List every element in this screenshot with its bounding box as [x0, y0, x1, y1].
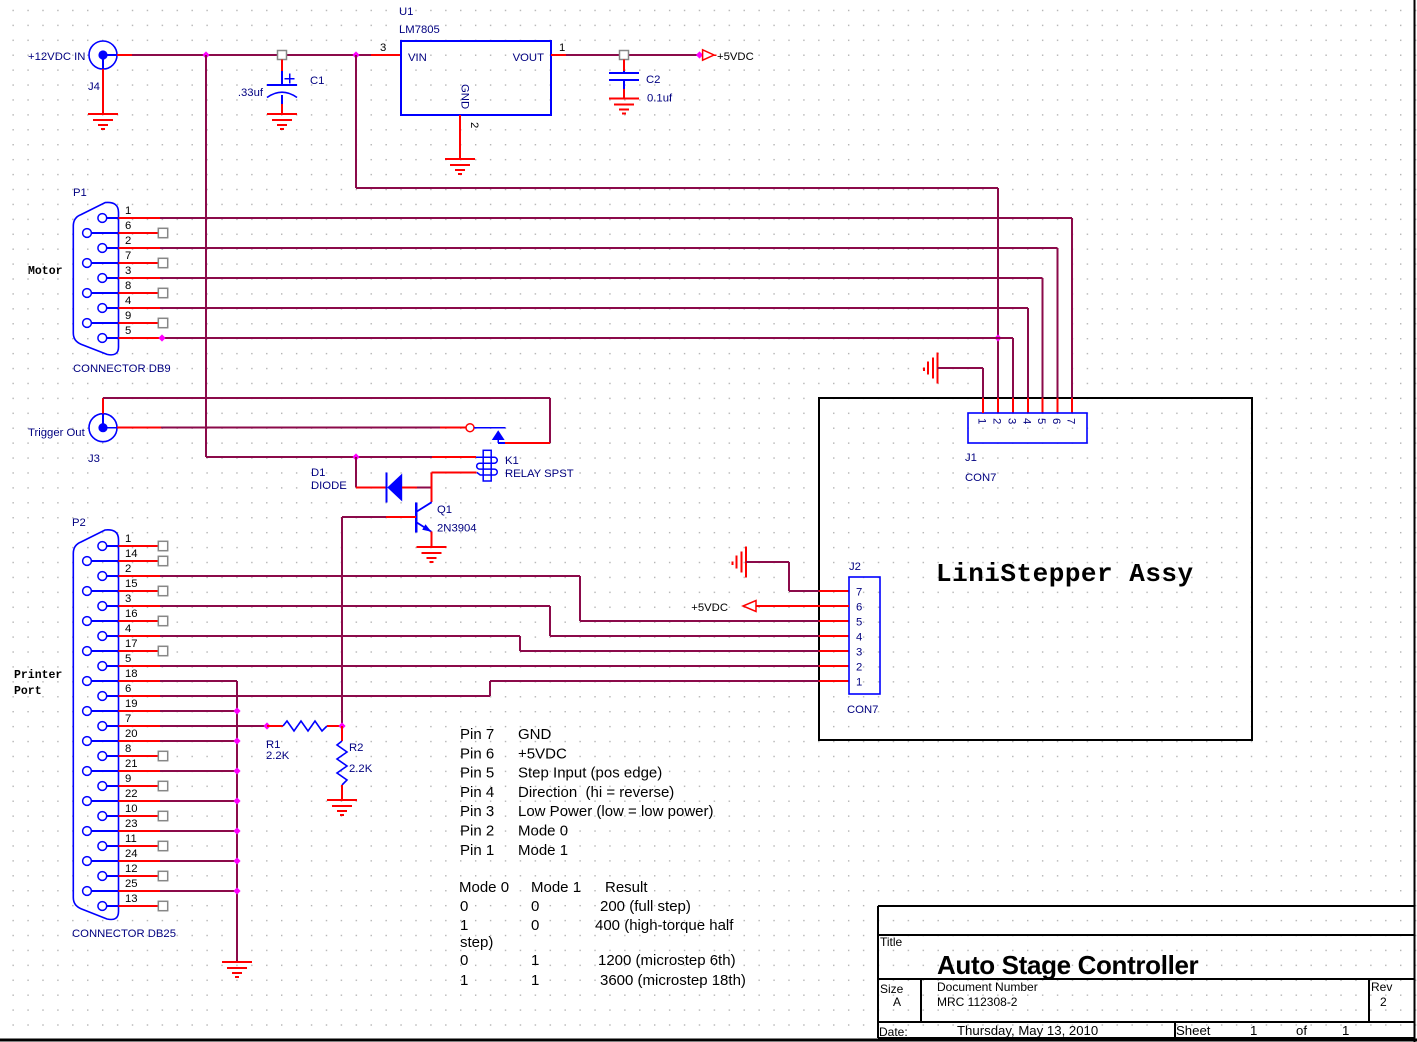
svg-text:step): step) [460, 934, 493, 951]
svg-text:Title: Title [880, 935, 903, 949]
svg-text:4: 4 [125, 295, 131, 307]
svg-text:.33uf: .33uf [238, 87, 264, 99]
svg-text:1: 1 [460, 917, 468, 934]
svg-text:6: 6 [125, 683, 131, 695]
svg-text:+5VDC: +5VDC [717, 51, 754, 63]
svg-text:1: 1 [125, 205, 131, 217]
svg-text:CON7: CON7 [847, 704, 878, 716]
svg-text:1200 (microstep 6th): 1200 (microstep 6th) [598, 952, 736, 969]
svg-text:RELAY SPST: RELAY SPST [505, 468, 574, 480]
svg-text:VOUT: VOUT [513, 52, 544, 64]
svg-text:1: 1 [531, 972, 539, 989]
svg-text:Pin 5: Pin 5 [460, 765, 494, 782]
svg-text:K1: K1 [505, 455, 519, 467]
svg-text:J4: J4 [88, 81, 100, 93]
svg-text:GND: GND [459, 84, 471, 109]
svg-text:4: 4 [125, 623, 131, 635]
svg-text:LM7805: LM7805 [399, 24, 440, 36]
svg-text:0: 0 [531, 917, 539, 934]
svg-text:+12VDC IN: +12VDC IN [28, 51, 85, 63]
svg-text:2: 2 [125, 563, 131, 575]
svg-text:21: 21 [125, 758, 138, 770]
svg-text:Pin 1: Pin 1 [460, 842, 494, 859]
svg-text:1: 1 [976, 418, 988, 424]
svg-text:6: 6 [125, 220, 131, 232]
svg-text:1: 1 [856, 677, 862, 689]
svg-text:R2: R2 [349, 742, 363, 754]
svg-text:2.2K: 2.2K [266, 750, 290, 762]
svg-text:2: 2 [125, 235, 131, 247]
svg-text:1: 1 [125, 533, 131, 545]
svg-text:10: 10 [125, 803, 138, 815]
svg-text:LiniStepper Assy: LiniStepper Assy [936, 559, 1194, 589]
svg-text:CONNECTOR DB25: CONNECTOR DB25 [72, 928, 176, 940]
svg-text:U1: U1 [399, 6, 413, 18]
svg-text:4: 4 [1020, 418, 1032, 424]
svg-text:5: 5 [125, 325, 131, 337]
svg-text:J3: J3 [88, 453, 100, 465]
svg-text:24: 24 [125, 848, 138, 860]
svg-text:DIODE: DIODE [311, 480, 347, 492]
svg-text:22: 22 [125, 788, 138, 800]
svg-text:1: 1 [460, 972, 468, 989]
svg-text:P2: P2 [72, 517, 86, 529]
svg-text:J1: J1 [965, 452, 977, 464]
svg-text:J2: J2 [849, 561, 861, 573]
svg-text:CON7: CON7 [965, 472, 996, 484]
svg-text:12: 12 [125, 863, 138, 875]
svg-text:4: 4 [856, 632, 862, 644]
svg-text:Date:: Date: [879, 1025, 908, 1039]
svg-text:C2: C2 [646, 74, 660, 86]
svg-text:23: 23 [125, 818, 138, 830]
svg-text:Pin 6: Pin 6 [460, 745, 494, 762]
svg-text:7: 7 [1065, 418, 1077, 424]
svg-text:3: 3 [856, 647, 862, 659]
svg-text:8: 8 [125, 743, 131, 755]
svg-text:Port: Port [14, 685, 42, 698]
svg-text:Auto Stage Controller: Auto Stage Controller [937, 950, 1199, 980]
svg-text:7: 7 [125, 713, 131, 725]
svg-text:C1: C1 [310, 75, 324, 87]
svg-text:Thursday, May 13, 2010: Thursday, May 13, 2010 [957, 1023, 1098, 1038]
svg-text:2: 2 [1380, 995, 1387, 1009]
svg-text:3600 (microstep 18th): 3600 (microstep 18th) [600, 972, 746, 989]
svg-text:6: 6 [856, 602, 862, 614]
svg-text:+5VDC: +5VDC [518, 745, 567, 762]
svg-text:2.2K: 2.2K [349, 763, 373, 775]
svg-text:Motor: Motor [28, 265, 63, 278]
svg-text:6: 6 [1050, 418, 1062, 424]
svg-text:11: 11 [125, 833, 137, 845]
svg-text:Mode 1: Mode 1 [518, 842, 568, 859]
svg-text:0: 0 [531, 898, 539, 915]
svg-text:1: 1 [1342, 1023, 1349, 1038]
svg-text:200 (full step): 200 (full step) [600, 898, 691, 915]
svg-text:Size: Size [880, 982, 904, 996]
svg-text:D1: D1 [311, 467, 325, 479]
svg-text:3: 3 [380, 42, 386, 54]
svg-text:18: 18 [125, 668, 138, 680]
svg-text:9: 9 [125, 310, 131, 322]
svg-text:5: 5 [125, 653, 131, 665]
svg-text:3: 3 [125, 265, 131, 277]
svg-text:Mode 1: Mode 1 [531, 879, 581, 896]
svg-text:400 (high-torque half: 400 (high-torque half [595, 917, 734, 934]
svg-text:of: of [1296, 1023, 1307, 1038]
svg-text:8: 8 [125, 280, 131, 292]
svg-text:Printer: Printer [14, 669, 62, 682]
svg-text:2: 2 [468, 122, 480, 128]
svg-text:0: 0 [460, 898, 468, 915]
svg-text:Step Input (pos edge): Step Input (pos edge) [518, 765, 662, 782]
svg-text:2N3904: 2N3904 [437, 523, 477, 535]
svg-text:Pin 4: Pin 4 [460, 784, 494, 801]
svg-text:3: 3 [125, 593, 131, 605]
svg-text:15: 15 [125, 578, 138, 590]
svg-text:Mode 0: Mode 0 [459, 879, 509, 896]
svg-text:14: 14 [125, 548, 138, 560]
svg-text:MRC 112308-2: MRC 112308-2 [937, 995, 1018, 1009]
svg-text:Pin 7: Pin 7 [460, 726, 494, 743]
svg-text:25: 25 [125, 878, 138, 890]
svg-text:3: 3 [1006, 418, 1018, 424]
svg-text:7: 7 [125, 250, 131, 262]
svg-text:0.1uf: 0.1uf [647, 93, 673, 105]
svg-text:Sheet: Sheet [1176, 1023, 1211, 1038]
svg-text:13: 13 [125, 893, 138, 905]
svg-text:GND: GND [518, 726, 552, 743]
svg-text:Document Number: Document Number [937, 980, 1038, 994]
svg-text:2: 2 [856, 662, 862, 674]
svg-text:20: 20 [125, 728, 138, 740]
svg-text:17: 17 [125, 638, 138, 650]
svg-text:9: 9 [125, 773, 131, 785]
svg-text:+5VDC: +5VDC [691, 602, 728, 614]
svg-text:VIN: VIN [408, 52, 427, 64]
svg-text:Direction (hi = reverse): Direction (hi = reverse) [518, 784, 674, 801]
svg-text:Low Power (low = low power): Low Power (low = low power) [518, 803, 714, 820]
svg-text:Rev: Rev [1371, 980, 1392, 994]
svg-text:16: 16 [125, 608, 138, 620]
svg-text:A: A [893, 995, 901, 1009]
svg-text:Pin 3: Pin 3 [460, 803, 494, 820]
svg-text:Q1: Q1 [437, 504, 452, 516]
svg-text:CONNECTOR DB9: CONNECTOR DB9 [73, 363, 171, 375]
svg-text:1: 1 [531, 952, 539, 969]
svg-text:19: 19 [125, 698, 138, 710]
svg-text:1: 1 [559, 42, 565, 54]
svg-text:0: 0 [460, 952, 468, 969]
svg-text:5: 5 [856, 617, 862, 629]
svg-text:Result: Result [605, 879, 648, 896]
svg-text:7: 7 [856, 587, 862, 599]
svg-text:5: 5 [1035, 418, 1047, 424]
svg-text:Trigger Out: Trigger Out [28, 427, 86, 439]
svg-text:P1: P1 [73, 187, 87, 199]
svg-text:Mode 0: Mode 0 [518, 823, 568, 840]
svg-text:2: 2 [991, 418, 1003, 424]
svg-text:1: 1 [1250, 1023, 1257, 1038]
svg-text:Pin 2: Pin 2 [460, 823, 494, 840]
